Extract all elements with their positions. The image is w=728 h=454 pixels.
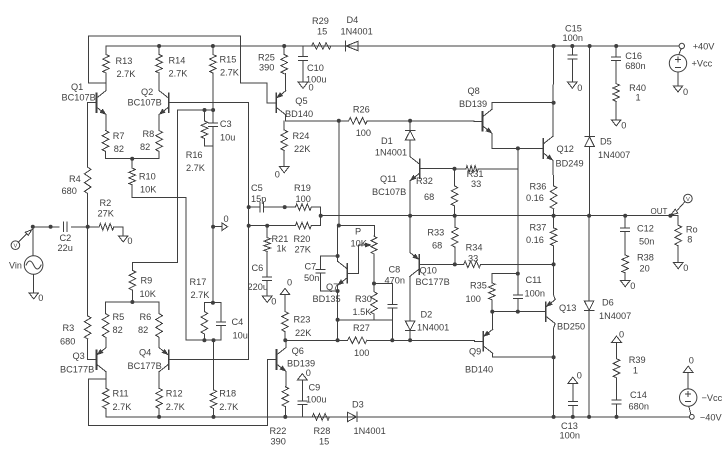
node R21 top (265, 224, 269, 228)
wire C7 bottom link (320, 273, 337, 291)
svg-text:2.7K: 2.7K (169, 69, 189, 79)
node C14 rail tap (615, 415, 619, 419)
wire Q11 collector lead (409, 140, 411, 157)
node C7 top tap (336, 254, 340, 258)
svg-text:20: 20 (640, 264, 650, 274)
resistor R13 2.7K (103, 46, 137, 83)
node R32/R33 on OUT rail (453, 214, 457, 218)
svg-text:R24: R24 (293, 131, 310, 141)
svg-text:Q2: Q2 (141, 87, 153, 97)
svg-text:C3: C3 (220, 119, 232, 129)
transistor Q6 BD139 (268, 346, 315, 372)
wire Q9 collector lead (493, 353, 554, 357)
diode D5 1N4007 (585, 136, 630, 215)
svg-text:BC107B: BC107B (128, 98, 162, 108)
svg-text:68: 68 (424, 192, 434, 202)
svg-text:D1: D1 (381, 136, 393, 146)
svg-text:C11: C11 (526, 275, 542, 285)
svg-text:1N4007: 1N4007 (598, 150, 630, 160)
wire Q10 base line (419, 263, 455, 265)
svg-text:C16: C16 (625, 51, 642, 61)
node tail ground junction (211, 225, 215, 229)
resistor R6 82 (138, 302, 162, 337)
node R25 top (282, 44, 286, 48)
wire C7 top link (320, 256, 337, 269)
node Q9 emitter junction (490, 310, 494, 314)
node R14 top (157, 44, 161, 48)
terminal +40V (679, 42, 715, 52)
svg-text:−40V: −40V (700, 413, 723, 423)
wire R17 box bottom (204, 339, 221, 341)
capacitor C2 22u (58, 222, 73, 253)
resistor R20 27K (267, 222, 312, 254)
ground below Vin (29, 293, 43, 303)
svg-text:C7: C7 (305, 262, 317, 272)
source Vin (9, 227, 43, 293)
ground below Ro (673, 263, 688, 274)
svg-text:R40: R40 (629, 83, 646, 93)
svg-text:0: 0 (619, 329, 624, 339)
svg-text:Q11: Q11 (380, 174, 397, 184)
node R17 bottom (202, 338, 206, 342)
node +rail output tap (552, 44, 556, 48)
svg-text:0: 0 (38, 293, 43, 303)
diode D3 1N4001 (347, 400, 385, 437)
svg-text:2.7K: 2.7K (186, 163, 206, 173)
svg-text:100n: 100n (560, 431, 580, 441)
wire Q1 emitter lead (105, 115, 107, 131)
svg-text:V: V (686, 197, 690, 203)
resistor R22 390 (270, 387, 289, 447)
potentiometer P 10K (351, 227, 378, 255)
wire positive supply bus (106, 45, 679, 47)
svg-text:Q1: Q1 (71, 82, 83, 92)
node Q9/Q13 collector junction (552, 355, 556, 359)
svg-text:OUT: OUT (651, 207, 668, 216)
resistor R10 10K (129, 159, 157, 195)
svg-text:100u: 100u (306, 395, 326, 405)
svg-text:C6: C6 (252, 263, 264, 273)
svg-text:R12: R12 (166, 389, 183, 399)
diode D1 1N4001 (375, 121, 415, 158)
svg-text:R7: R7 (113, 131, 125, 141)
node C13 rail tap (571, 415, 575, 419)
node feedback R20 tap (247, 224, 251, 228)
resistor R8 82 (140, 129, 162, 159)
wire Q10 emitter to OUT rail (409, 216, 411, 253)
svg-text:8: 8 (687, 235, 692, 245)
svg-text:R4: R4 (69, 174, 81, 184)
ground below R2 (118, 236, 132, 246)
svg-text:BD250: BD250 (557, 322, 585, 332)
wire OUT rail to Ro (670, 216, 678, 226)
svg-text:1N4001: 1N4001 (341, 27, 373, 37)
svg-text:R34: R34 (466, 243, 483, 253)
capacitor C16 680n (612, 46, 646, 84)
svg-text:C9: C9 (309, 383, 321, 393)
svg-text:C8: C8 (389, 265, 401, 275)
svg-text:C13: C13 (561, 421, 578, 431)
transistor Q5 BD140 (268, 91, 313, 119)
svg-text:R15: R15 (220, 55, 237, 65)
node R37 bottom junction (552, 262, 556, 266)
wire R18 feed vertical (213, 340, 215, 390)
svg-text:2.7K: 2.7K (166, 402, 186, 412)
svg-text:82: 82 (138, 325, 148, 335)
capacitor C15 100n (563, 24, 583, 83)
resistor R4 680 (62, 167, 92, 196)
wire input node horizontal (33, 226, 59, 228)
capacitor C6 220u (248, 263, 272, 296)
svg-text:1N4001: 1N4001 (354, 426, 386, 436)
node Q10/Q11 emitters on OUT rail (408, 214, 412, 218)
svg-text:BC177B: BC177B (128, 361, 162, 371)
resistor R14 2.7K (156, 46, 188, 79)
svg-text:C12: C12 (637, 224, 654, 234)
wire C8 top link (374, 284, 392, 305)
svg-text:2.7K: 2.7K (220, 68, 240, 78)
svg-text:Q6: Q6 (292, 346, 304, 356)
node Q6 collector junction (283, 338, 287, 342)
wire Q5 base entry (268, 102, 277, 104)
ground above R23 (280, 278, 292, 295)
svg-text:27K: 27K (98, 209, 115, 219)
wire R27 to Q9 base (410, 339, 475, 341)
svg-text:−Vcc: −Vcc (702, 393, 723, 403)
resistor R24 22K (281, 121, 311, 167)
node emitter bus bottom pair (130, 300, 134, 304)
wire R13 bottom to Q1 collector (88, 82, 106, 84)
wire Q8 emitter to Q12 base (492, 133, 535, 148)
wire Q6 collector lead (285, 340, 287, 347)
svg-text:0: 0 (224, 214, 229, 224)
node C11 bottom (516, 310, 520, 314)
wire R26 line (286, 120, 349, 122)
resistor R38 20 (622, 253, 654, 281)
svg-text:22K: 22K (295, 328, 312, 338)
transistor Q4 BC177B (128, 348, 178, 372)
svg-text:C15: C15 (565, 24, 582, 34)
svg-text:R39: R39 (629, 355, 646, 365)
svg-text:10K: 10K (140, 289, 157, 299)
terminal -40V (689, 413, 722, 423)
svg-text:390: 390 (271, 437, 286, 447)
capacitor C9 100u (298, 380, 327, 417)
svg-text:R38: R38 (637, 253, 654, 263)
svg-text:680n: 680n (625, 61, 645, 71)
wire Q3 collector link down (88, 360, 267, 426)
svg-text:0: 0 (127, 236, 132, 246)
wire negative supply bus (106, 416, 690, 418)
ground below R24 (275, 167, 289, 180)
node C8 bottom to R27 line (390, 338, 394, 342)
wire R20 row left (249, 225, 268, 227)
svg-text:R25: R25 (258, 53, 275, 63)
svg-text:R30: R30 (355, 294, 372, 304)
svg-text:D6: D6 (602, 298, 614, 308)
svg-text:2.7K: 2.7K (191, 290, 211, 300)
svg-text:R2: R2 (100, 198, 112, 208)
wire Q4 base line (169, 359, 214, 361)
resistor R2 27K (98, 198, 124, 230)
node feedback to OUT rail (319, 214, 323, 218)
svg-text:D4: D4 (347, 15, 359, 25)
svg-text:R11: R11 (113, 389, 129, 399)
wire R15 bottom to C3 node (212, 73, 214, 110)
svg-text:R28: R28 (314, 426, 331, 436)
resistor R37 0.16 (526, 216, 557, 265)
svg-text:BD249: BD249 (556, 159, 584, 169)
ground below R40 (611, 120, 626, 131)
wire Q5 emitter lead (285, 74, 287, 91)
svg-text:BC107B: BC107B (62, 93, 96, 103)
svg-text:BC177B: BC177B (416, 277, 450, 287)
wire Q3 emitter lead (105, 337, 107, 347)
svg-text:C4: C4 (232, 317, 244, 327)
node input junction (31, 225, 35, 229)
svg-text:33: 33 (468, 254, 478, 264)
node D5 top rail (588, 44, 592, 48)
svg-text:BD135: BD135 (313, 294, 341, 304)
wire D5 vertical top (589, 46, 591, 136)
svg-text:0: 0 (309, 83, 314, 93)
capacitor C14 680n (612, 378, 649, 417)
svg-text:R26: R26 (353, 105, 370, 115)
ground below C6 (262, 296, 276, 307)
svg-text:22K: 22K (294, 144, 311, 154)
svg-text:100n: 100n (525, 289, 545, 299)
wire R35 link (492, 273, 518, 275)
resistor R36 0.16 (526, 182, 557, 216)
svg-text:2.7K: 2.7K (113, 402, 133, 412)
wire R31 to Q12 base node (478, 168, 518, 170)
wire Q2 emitter lead (158, 115, 160, 131)
svg-text:R18: R18 (219, 389, 236, 399)
svg-text:680: 680 (62, 186, 77, 196)
node output devices to -rail (552, 415, 556, 419)
svg-text:BD140: BD140 (285, 109, 313, 119)
svg-text:0: 0 (683, 263, 688, 273)
node Q10 base junction (453, 262, 457, 266)
diode D2 1N4001 (405, 310, 449, 341)
node feedback C5 tap (247, 205, 251, 209)
wire Q6 emitter lead (285, 372, 287, 387)
resistor Ro 8 (load) (675, 225, 698, 263)
wire Q1 collector lead (105, 83, 107, 90)
svg-text:1N4007: 1N4007 (599, 311, 631, 321)
svg-text:R21: R21 (272, 234, 289, 244)
resistor R25 390 (258, 46, 288, 74)
svg-text:100: 100 (356, 128, 371, 138)
diode D4 1N4001 (341, 15, 373, 51)
node input bias junction (86, 225, 90, 229)
wire Q7 emitter lead (337, 285, 339, 340)
wire P bottom to R30 (373, 254, 375, 292)
resistor R12 2.7K (156, 388, 186, 417)
svg-text:Vin: Vin (9, 260, 22, 270)
svg-text:1: 1 (633, 366, 638, 376)
svg-text:1k: 1k (277, 244, 287, 254)
svg-text:10K: 10K (140, 185, 157, 195)
capacitor C4 10u (217, 303, 248, 341)
wire Q4 emitter lead (158, 337, 160, 347)
resistor R23 22K (282, 295, 313, 341)
dot C5-R19 junction (283, 205, 287, 209)
svg-text:1N4001: 1N4001 (375, 148, 407, 158)
svg-text:Q3: Q3 (73, 351, 85, 361)
resistor R3 680 (60, 316, 91, 347)
voltage probe at input (11, 230, 32, 250)
svg-text:680n: 680n (629, 402, 649, 412)
wire bias top vertical (338, 121, 340, 226)
wire Q9 emitter lead (492, 312, 494, 330)
resistor R30 1.5K (353, 292, 378, 320)
wire R16 box top (178, 109, 214, 111)
svg-text:0: 0 (577, 83, 582, 93)
transistor Q9 BD140 (465, 329, 493, 374)
node R35 top tap (516, 272, 520, 276)
node Q11 base junction (453, 167, 457, 171)
svg-text:Q10: Q10 (420, 266, 437, 276)
svg-text:D2: D2 (421, 310, 433, 320)
svg-text:82: 82 (140, 142, 150, 152)
svg-text:R27: R27 (353, 323, 370, 333)
svg-text:BC107B: BC107B (372, 187, 406, 197)
resistor R27 100 (348, 323, 410, 358)
svg-text:D3: D3 (352, 400, 364, 410)
svg-text:R31: R31 (467, 169, 484, 179)
ground above R39 (612, 329, 624, 342)
svg-text:33: 33 (471, 179, 481, 189)
svg-text:0: 0 (287, 278, 292, 288)
svg-text:0: 0 (577, 370, 582, 380)
svg-text:R36: R36 (530, 182, 547, 192)
svg-text:1.5K: 1.5K (353, 307, 373, 317)
resistor R17 2.7K (190, 277, 211, 340)
resistor R15 2.7K (210, 46, 240, 78)
wire Q2 collector lead (158, 73, 160, 91)
resistor R31 33 (455, 166, 484, 189)
node emitter bus top pair (130, 157, 134, 161)
resistor R18 2.7K (210, 389, 239, 417)
svg-text:Q9: Q9 (469, 347, 481, 357)
node C7 bottom tap (336, 289, 340, 293)
transistor Q12 BD249 (535, 136, 584, 168)
resistor R35 100 (466, 274, 496, 312)
source +Vcc (669, 49, 712, 86)
node C12 tap on OUT rail (623, 214, 627, 218)
node C16 rail tap (614, 44, 618, 48)
svg-text:D5: D5 (600, 137, 612, 147)
svg-text:100: 100 (466, 294, 481, 304)
svg-text:R19: R19 (294, 183, 311, 193)
svg-text:Q13: Q13 (559, 303, 576, 313)
svg-text:100: 100 (354, 348, 369, 358)
resistor R34 33 (455, 243, 554, 268)
wire Q8 collector to +rail vertical (492, 103, 554, 110)
capacitor C13 100n (560, 383, 580, 440)
wire R16 net to ground node (212, 146, 214, 303)
svg-text:R23: R23 (294, 315, 311, 325)
wire R19 to OUT rail (311, 207, 320, 216)
resistor R19 100 (285, 183, 312, 210)
svg-text:390: 390 (259, 63, 274, 73)
svg-text:1N4001: 1N4001 (417, 323, 449, 333)
resistor R21 1k (264, 226, 288, 277)
svg-text:0: 0 (306, 368, 311, 378)
wire emitter bus Q3/Q4 (106, 301, 160, 303)
wire input node to R3 (87, 227, 89, 316)
svg-text:15p: 15p (251, 194, 266, 204)
svg-text:R8: R8 (143, 129, 155, 139)
wire emitter bus Q1/Q2 (106, 158, 160, 160)
ground above -Vcc (683, 355, 693, 372)
svg-text:R37: R37 (530, 223, 547, 233)
wire bias top horizontal (339, 226, 375, 237)
node bias block bottom left (336, 318, 340, 322)
resistor R28 15 (312, 414, 330, 447)
wire Q13 emitter vertical (554, 264, 556, 299)
svg-text:BD140: BD140 (465, 365, 493, 375)
terminal OUT with probe (651, 194, 693, 216)
svg-text:680: 680 (60, 337, 75, 347)
ground below C10 (298, 82, 313, 93)
svg-text:0: 0 (275, 170, 280, 180)
svg-text:22u: 22u (58, 243, 73, 253)
svg-text:R16: R16 (186, 150, 203, 160)
svg-text:R10: R10 (139, 172, 156, 182)
svg-text:BC177B: BC177B (60, 365, 94, 375)
node Q8 emitter junction (516, 146, 520, 150)
svg-text:R20: R20 (294, 234, 311, 244)
svg-text:Q5: Q5 (295, 96, 307, 106)
wire R27 line (285, 339, 347, 341)
node D5 bottom OUT rail (587, 214, 591, 218)
ground below R38 (620, 281, 635, 292)
wire R16/C3 bottom (205, 145, 214, 147)
node Q8 collector junction (552, 101, 556, 105)
dot on input wire (49, 225, 53, 229)
capacitor C10 100u (299, 46, 327, 85)
svg-text:0: 0 (630, 281, 635, 291)
resistor R5 82 (102, 302, 124, 337)
svg-text:V: V (13, 244, 17, 250)
transistor Q7 BD135 (313, 261, 356, 304)
node R16 top (203, 108, 207, 112)
svg-text:+Vcc: +Vcc (692, 59, 713, 69)
node R15 top (211, 44, 215, 48)
transistor Q10 BC177B (410, 252, 450, 287)
svg-text:0.16: 0.16 (526, 193, 544, 203)
node bias top corner (337, 224, 341, 228)
svg-text:R6: R6 (140, 312, 152, 322)
wire R3 to Q3 base (88, 339, 97, 360)
wire Q12 emitter lead (552, 160, 555, 185)
node C8 top tap (372, 282, 376, 286)
svg-text:C2: C2 (60, 233, 72, 243)
svg-text:Q4: Q4 (139, 348, 151, 358)
capacitor C8 470n (385, 265, 405, 308)
node R18 bottom (212, 415, 216, 419)
svg-text:82: 82 (114, 144, 124, 154)
resistor R29 15 (312, 16, 332, 49)
capacitor C11 100n (513, 274, 545, 312)
svg-text:R32: R32 (416, 176, 433, 186)
wire Q12 collector vertical (552, 46, 555, 136)
node D2 bottom (408, 338, 412, 342)
wire R16 box left to R9 (132, 110, 177, 270)
node Q7 emitter tap (336, 338, 340, 342)
